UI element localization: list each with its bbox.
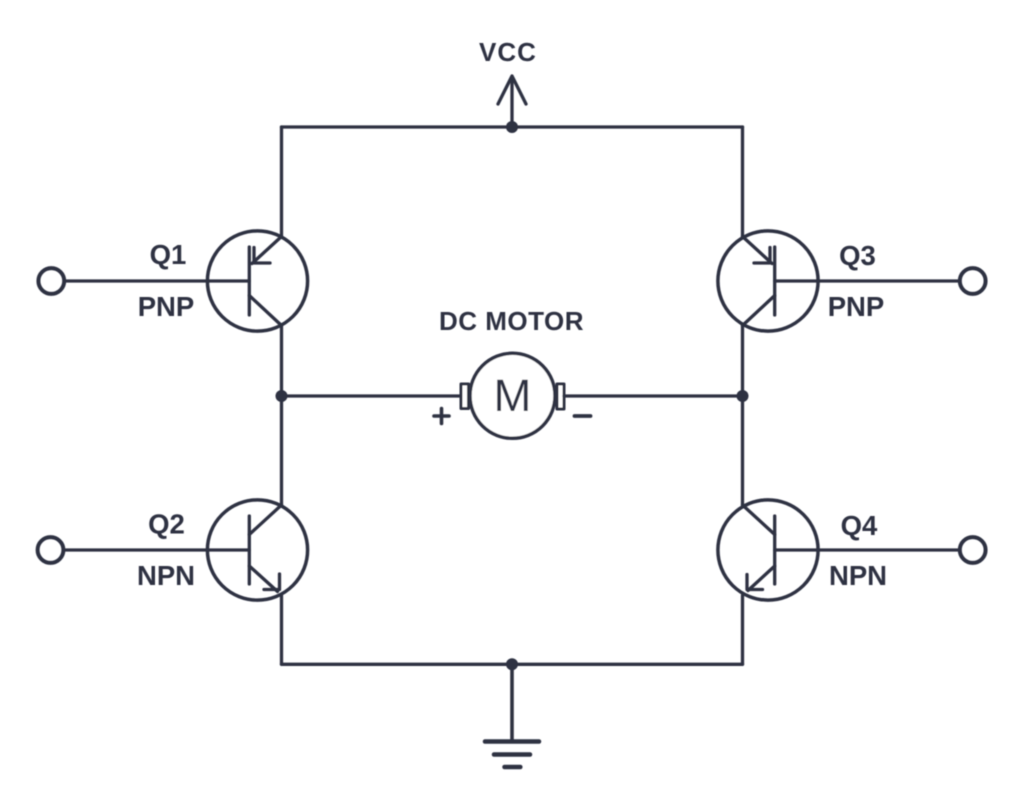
label + (motor positive) — [434, 409, 449, 424]
wire: bottom rail to ground — [510, 664, 514, 740]
svg-text:Q2: Q2 — [148, 509, 185, 540]
svg-text:Q3: Q3 — [839, 240, 876, 271]
wire: bottom rail (ground bus) — [282, 663, 743, 666]
wire: top rail to Q3 emitter — [741, 127, 744, 237]
svg-text:PNP: PNP — [828, 291, 885, 322]
wire: Q3 collector to node B — [741, 326, 744, 397]
transistor Q2 — [207, 500, 307, 600]
wire: node A to motor + terminal — [282, 394, 462, 397]
label - (motor negative) — [575, 414, 591, 418]
terminal: Q3 base input — [960, 268, 986, 294]
wire: motor - terminal to node B — [564, 394, 743, 397]
transistor Q1 — [207, 231, 307, 331]
svg-text:PNP: PNP — [138, 291, 195, 322]
wire: Q1 base lead — [65, 279, 249, 282]
svg-text:M: M — [494, 370, 532, 421]
junction: node A (left motor node) — [276, 390, 288, 402]
junction: VCC tap on top rail — [506, 121, 518, 133]
motor M1 — [461, 353, 564, 438]
svg-text:VCC: VCC — [479, 37, 537, 67]
wire: Q1 collector to node A — [280, 326, 283, 397]
svg-text:DC MOTOR: DC MOTOR — [439, 306, 584, 336]
wire: Q4 emitter to bottom rail — [741, 596, 744, 665]
transistor Q3 — [718, 231, 818, 331]
terminal: Q2 base input — [38, 537, 64, 563]
junction: node B (right motor node) — [737, 390, 749, 402]
wire: Q2 base lead — [64, 548, 249, 551]
terminal: Q4 base input — [960, 537, 986, 563]
terminal: Q1 base input — [38, 268, 64, 294]
svg-text:NPN: NPN — [829, 560, 887, 591]
wire: Q2 emitter to bottom rail — [280, 596, 283, 665]
svg-text:NPN: NPN — [137, 560, 195, 591]
ground — [485, 742, 539, 768]
wire: node A to Q2 collector — [280, 396, 283, 505]
power symbol VCC arrow — [498, 76, 526, 127]
wire: top rail (VCC bus) — [282, 125, 743, 128]
wire: top rail to Q1 emitter — [280, 127, 283, 237]
svg-text:Q4: Q4 — [841, 510, 878, 541]
svg-text:Q1: Q1 — [150, 239, 187, 270]
wire: Q4 base lead — [775, 548, 959, 551]
wire: node B to Q4 collector — [741, 396, 744, 505]
transistor Q4 — [718, 500, 818, 600]
junction: ground tap on bottom rail — [506, 658, 518, 670]
wire: Q3 base lead — [775, 279, 959, 282]
